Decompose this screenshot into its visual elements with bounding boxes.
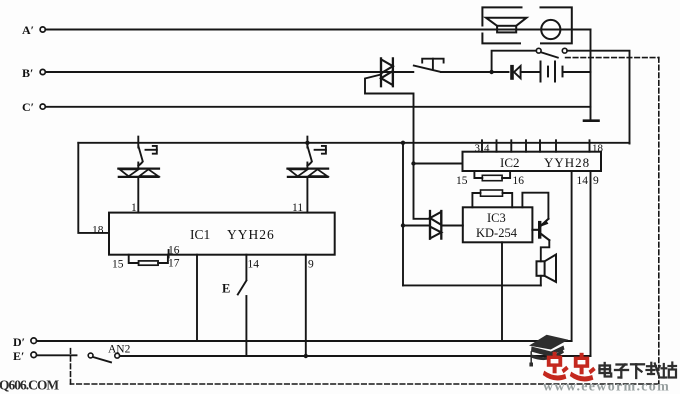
op-amp IC1 box xyxy=(109,213,335,255)
wire D' line xyxy=(37,340,572,342)
logo text xia (CJK) xyxy=(631,364,644,378)
wire triac VS3 to IC1 pin 11 xyxy=(306,177,308,213)
wire left loop to IC1 pin 18 xyxy=(78,143,108,233)
motor/bell M (circle in top box) xyxy=(541,20,560,39)
switch E1 (above first triac) xyxy=(138,137,143,169)
wire after switch to node xyxy=(441,71,509,73)
wire battery to power node xyxy=(563,71,591,73)
switch AN2 right contact xyxy=(115,353,120,358)
svg-text:E: E xyxy=(222,282,230,296)
svg-text:KD-254: KD-254 xyxy=(476,226,518,240)
svg-text:18: 18 xyxy=(592,143,604,155)
terminal A' xyxy=(22,23,45,37)
wire triac VS1 gate xyxy=(365,75,429,219)
svg-text:4: 4 xyxy=(484,143,490,155)
svg-text:AN2: AN2 xyxy=(108,344,131,356)
node on rail at second switch xyxy=(305,141,309,145)
wire rail to VS4 MT1 xyxy=(403,225,429,227)
terminal E' xyxy=(13,349,37,363)
logo red character chong 2 xyxy=(570,353,596,382)
speaker HA (top box) xyxy=(486,18,527,33)
svg-text:IC1: IC1 xyxy=(190,227,210,242)
resistor R1 between IC1 pins 15 and 17 xyxy=(129,255,168,265)
ground bar xyxy=(584,119,599,122)
wire from node up to relay contact xyxy=(492,51,537,72)
wire E' line xyxy=(120,355,591,357)
terminal B' xyxy=(22,66,45,80)
svg-text:IC2: IC2 xyxy=(500,155,520,170)
wire speaker to bottom rail xyxy=(540,276,542,286)
svg-text:A′: A′ xyxy=(22,23,34,37)
svg-text:14: 14 xyxy=(248,259,260,271)
wire VS4 MT2 to IC3 xyxy=(443,225,463,227)
IC2 top pin ticks xyxy=(482,140,590,151)
node gate wire to IC2 xyxy=(411,161,415,165)
logo text zi (CJK) xyxy=(615,365,628,378)
node junction at diode branch xyxy=(489,70,493,74)
svg-text:Q606.COM: Q606.COM xyxy=(0,378,59,393)
relay contact K (left circle) xyxy=(536,48,541,53)
wire IC1 pin 14 upper xyxy=(245,255,247,280)
switch AN2 blade xyxy=(93,357,111,362)
wire IC2 pin 9 to E' xyxy=(590,171,592,356)
wire triac VS2 to IC1 pin 1 xyxy=(137,177,139,213)
wire left rail of driver block xyxy=(402,143,404,286)
transistor Q1 xyxy=(532,219,549,240)
resistor R2 between IC2 pins 15 and 16 xyxy=(474,171,510,181)
diode VD xyxy=(512,66,521,78)
speaker BL xyxy=(537,255,557,282)
wire below switch E to E' line xyxy=(245,296,247,356)
battery GB xyxy=(541,62,563,82)
enclosure box around speaker HA and motor xyxy=(482,7,571,43)
logo text zhan (CJK) xyxy=(662,363,677,378)
svg-text:15: 15 xyxy=(456,175,468,187)
svg-text:D′: D′ xyxy=(13,335,25,349)
wire Q1 emitter loop to IC3 top xyxy=(522,193,548,219)
wire A' line xyxy=(46,29,591,31)
resistor R3 above IC3 xyxy=(472,190,512,207)
op-amp IC2 box xyxy=(463,152,602,171)
wire to IC2 left pin xyxy=(414,163,463,165)
terminal C' xyxy=(22,100,45,114)
svg-text:E′: E′ xyxy=(13,349,24,363)
terminal D' xyxy=(13,335,37,349)
svg-text:C′: C′ xyxy=(22,100,34,114)
switch E (on pin 14 wire) xyxy=(238,281,247,295)
switch E2 (above second triac) xyxy=(307,137,312,169)
node triac MT1 branch xyxy=(401,223,405,227)
triac VS1 on B' line xyxy=(381,58,393,86)
logo tassel xyxy=(529,352,533,367)
svg-text:YYH28: YYH28 xyxy=(544,155,590,170)
svg-text:17: 17 xyxy=(168,258,180,270)
svg-text:18: 18 xyxy=(92,225,104,237)
wire diode to battery xyxy=(521,71,541,73)
op-amp IC3 box xyxy=(463,207,533,242)
triac VS3 (horizontal, right) xyxy=(288,169,329,177)
logo red character chong 1 xyxy=(543,352,569,381)
triac VS2 (horizontal, left) xyxy=(118,169,159,177)
dashed enclosure of remote unit xyxy=(71,58,659,384)
wire from box to right vertical xyxy=(572,30,591,121)
svg-text:B′: B′ xyxy=(22,66,33,80)
node pin9/E' junction xyxy=(304,354,308,358)
svg-text:www.eeworm.com: www.eeworm.com xyxy=(543,380,670,394)
svg-text:IC3: IC3 xyxy=(487,211,506,225)
wire Q1 collector to speaker xyxy=(541,240,550,261)
logo text zai (CJK) xyxy=(647,363,660,378)
svg-text:9: 9 xyxy=(308,259,314,271)
wire from relay right contact to right vertical and down to rail xyxy=(567,51,629,144)
wire IC3 ground to D' line xyxy=(501,242,503,341)
triac VS4 (driver) xyxy=(430,211,441,239)
logo text dian (CJK) xyxy=(600,363,612,377)
wire IC2 pin 14 to D' xyxy=(571,171,573,341)
node on rail at left vertical rail xyxy=(401,141,405,145)
relay blade xyxy=(541,52,558,57)
svg-text:14: 14 xyxy=(577,175,589,187)
switch actuator flag (B' line) xyxy=(422,59,443,69)
svg-text:16: 16 xyxy=(513,175,525,187)
switch E2 actuator flag xyxy=(315,146,326,154)
wire bottom rail of driver block xyxy=(403,284,541,286)
svg-text:YYH26: YYH26 xyxy=(227,227,275,242)
wire main control rail xyxy=(78,142,629,144)
wire B' line xyxy=(46,71,414,73)
svg-text:9: 9 xyxy=(593,175,599,187)
relay contact K (right circle) xyxy=(562,48,567,53)
logo graduation cap xyxy=(529,335,568,360)
wire E' to AN2 xyxy=(37,354,77,356)
switch AN2 left contact xyxy=(88,353,93,358)
wire C' line xyxy=(46,106,591,108)
switch contact after VS1 xyxy=(414,66,441,72)
svg-text:16: 16 xyxy=(168,245,180,257)
svg-text:15: 15 xyxy=(112,259,124,271)
switch E1 actuator flag xyxy=(146,146,157,154)
wire IC1 pin 9 to E' line xyxy=(305,255,307,356)
svg-text:3: 3 xyxy=(475,143,481,155)
wire IC1 pin 13 to D' line xyxy=(196,255,198,341)
